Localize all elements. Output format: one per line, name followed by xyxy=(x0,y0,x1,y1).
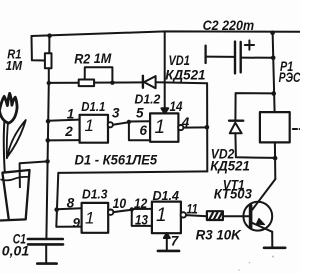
svg-text:D1 - К561ЛЕ5: D1 - К561ЛЕ5 xyxy=(75,151,158,167)
ground C1 xyxy=(37,262,56,265)
svg-text:D1.4: D1.4 xyxy=(153,188,180,203)
wire D1.2 pin 4 output xyxy=(183,126,207,128)
wire D1.4 pin 7 ground lead xyxy=(166,233,168,250)
svg-text:12: 12 xyxy=(134,196,148,211)
wire D1.3 pin 10 output xyxy=(113,210,131,212)
svg-text:5: 5 xyxy=(136,105,144,120)
wire relay bottom to collector xyxy=(274,142,276,179)
capacitor C2 left terminal tick xyxy=(204,46,206,63)
wire VD2 top branch xyxy=(235,93,273,120)
node top rail right xyxy=(270,31,275,36)
svg-text:4: 4 xyxy=(181,115,190,130)
node D1.1 output xyxy=(127,120,131,124)
pot soil line xyxy=(1,177,27,181)
wire feedback right vertical xyxy=(206,83,208,171)
svg-text:1: 1 xyxy=(85,208,94,227)
speck xyxy=(238,269,239,270)
wire D1.4 pin 11 output xyxy=(186,215,207,216)
wire D1.2 pin 6 branch xyxy=(129,122,150,140)
gate D1.4 box xyxy=(152,202,181,234)
svg-text:1: 1 xyxy=(156,205,167,226)
svg-text:C2 220m: C2 220m xyxy=(203,18,255,33)
relay actuation dashed line xyxy=(293,128,300,130)
wire emitter to ground xyxy=(271,232,273,247)
node D1.3 pin 8 xyxy=(54,207,59,212)
wire R2 wiper bracket xyxy=(85,67,113,83)
svg-text:14: 14 xyxy=(170,99,183,114)
node D1.1 pin 2 xyxy=(46,138,51,143)
wire supply to pin 14 xyxy=(164,31,166,113)
wire R1 top lead xyxy=(48,36,50,54)
resistor R2 xyxy=(79,80,94,87)
wire C2 left lead xyxy=(206,56,235,58)
node R2 wiper xyxy=(110,81,114,85)
svg-text:1M: 1M xyxy=(6,58,24,73)
svg-text:2: 2 xyxy=(64,124,73,139)
gate D1.3 box xyxy=(82,203,109,233)
wire D1.4 pin 13 branch xyxy=(132,209,152,226)
wire D1.2 pin 5 xyxy=(129,120,150,122)
wire D1.4 pin 12 xyxy=(132,208,152,210)
relay P1 coil box xyxy=(260,112,290,142)
svg-text:D1.3: D1.3 xyxy=(82,186,108,201)
speck xyxy=(249,262,251,264)
flower leaf xyxy=(7,120,26,157)
wire D1.1 pin 2 xyxy=(48,139,80,141)
capacitor C2 xyxy=(234,42,236,74)
node C2 right lead xyxy=(271,56,276,61)
wire right vertical rail xyxy=(273,32,275,112)
wire R2 left lead xyxy=(49,82,79,84)
resistor R3 xyxy=(207,211,223,220)
node sensor electrode xyxy=(45,159,50,164)
svg-text:0,01: 0,01 xyxy=(2,244,29,259)
wire D1.3 pin 9 branch xyxy=(56,226,81,228)
node D1.3 output xyxy=(130,207,134,211)
node D1.2 pin 4 feedback xyxy=(205,125,210,130)
svg-text:КД521: КД521 xyxy=(165,67,205,83)
svg-text:3: 3 xyxy=(112,105,120,120)
svg-text:1: 1 xyxy=(67,107,75,122)
diode VD2 xyxy=(229,119,243,121)
wire R3 to base xyxy=(223,215,250,217)
svg-text:D1.2: D1.2 xyxy=(135,91,162,106)
pin 7 arrow xyxy=(164,233,170,238)
svg-text:КД521: КД521 xyxy=(210,157,250,173)
svg-text:R3 10K: R3 10K xyxy=(196,227,242,243)
svg-text:R2: R2 xyxy=(74,50,90,66)
svg-text:1: 1 xyxy=(85,116,94,135)
wire C2 right lead xyxy=(241,57,274,59)
ground emitter xyxy=(264,247,285,250)
svg-text:9: 9 xyxy=(73,215,81,230)
op-amp U1 gate D1.1 box xyxy=(80,115,108,143)
wire left vertical rail xyxy=(46,83,48,239)
wire sensor electrode lead xyxy=(20,161,48,187)
svg-text:1: 1 xyxy=(155,117,166,138)
wire feedback bottom horizontal xyxy=(58,171,207,173)
wire R2 right lead xyxy=(94,81,143,83)
svg-text:11: 11 xyxy=(187,201,198,216)
wire D1.3 pin 8 xyxy=(57,208,82,209)
wire top supply rail xyxy=(32,31,301,36)
wire VD2 bottom branch xyxy=(235,133,275,158)
transistor Q1 VT1 xyxy=(249,206,253,228)
wire R1 wiper bracket xyxy=(32,36,45,61)
wire D1.1 pin 1 xyxy=(48,120,79,121)
svg-text:КТ503: КТ503 xyxy=(214,186,253,201)
node D1.1 pin 1 xyxy=(46,119,51,124)
svg-text:10: 10 xyxy=(113,196,127,211)
node R1 bottom / R2 xyxy=(47,81,51,85)
svg-text:РЭС: РЭС xyxy=(279,70,300,85)
ground pin 7 xyxy=(158,250,179,253)
svg-text:1M: 1M xyxy=(94,50,112,66)
wire D1.1 pin 3 output xyxy=(113,122,129,125)
pin 14 arrow xyxy=(161,108,168,113)
wire VD1 to feedback corner xyxy=(156,82,207,83)
svg-text:6: 6 xyxy=(140,123,148,138)
resistor R1 xyxy=(45,53,52,68)
node top rail R1 xyxy=(47,33,52,38)
wire feedback left vertical xyxy=(56,173,58,227)
svg-text:7: 7 xyxy=(171,233,180,248)
flower stem xyxy=(3,122,6,172)
svg-text:13: 13 xyxy=(135,212,148,227)
node VD2 bottom / collector xyxy=(273,156,278,161)
gate D1.2 box xyxy=(150,113,178,141)
capacitor C1 xyxy=(28,238,63,241)
svg-text:D1.1: D1.1 xyxy=(81,99,105,114)
node VD2 top xyxy=(271,91,276,96)
wire R1 bottom lead xyxy=(48,68,50,83)
flower blossom xyxy=(0,93,17,123)
speck xyxy=(272,256,274,258)
svg-text:8: 8 xyxy=(67,195,75,210)
diode VD1 xyxy=(142,76,144,88)
flower pot xyxy=(0,170,30,221)
